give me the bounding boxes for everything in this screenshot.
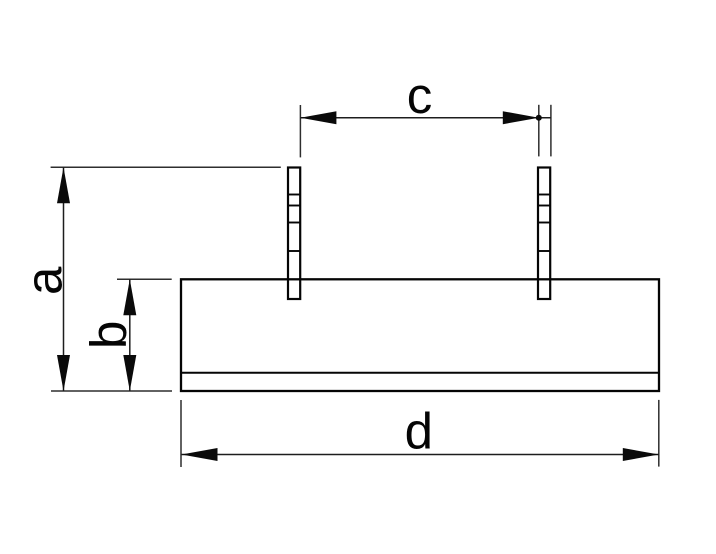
- svg-text:d: d: [405, 403, 433, 460]
- svg-text:b: b: [80, 321, 137, 349]
- svg-text:a: a: [15, 266, 72, 295]
- svg-text:c: c: [407, 67, 433, 124]
